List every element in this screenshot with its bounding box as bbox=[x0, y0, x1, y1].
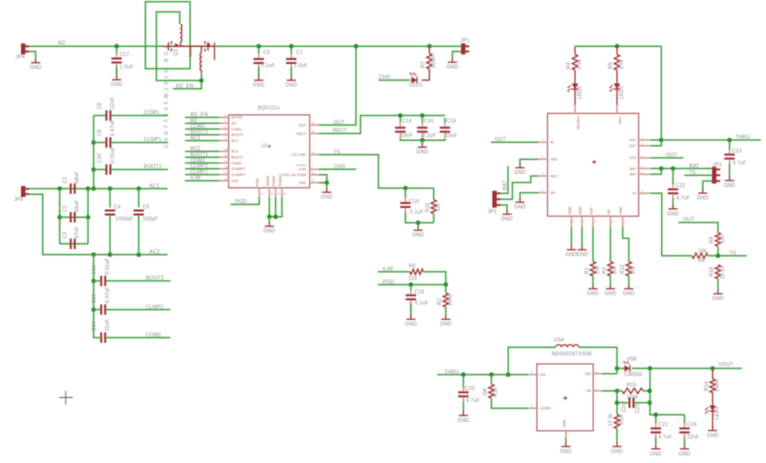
svg-text:PGD: PGD bbox=[383, 279, 395, 285]
junction node bus at C12 bbox=[91, 307, 96, 312]
pin ILIM of U2 bottom bbox=[592, 216, 594, 227]
wire C2 row bbox=[60, 216, 88, 218]
pin ISET of U2 bbox=[539, 175, 548, 177]
svg-text:22nF: 22nF bbox=[687, 434, 699, 440]
wire Q1 coil B to AD_EN junction bbox=[200, 74, 202, 81]
wire net AC1 stub at U1 bbox=[185, 140, 220, 142]
svg-text:BAT: BAT bbox=[689, 163, 699, 169]
resistor R8 bbox=[692, 248, 708, 264]
svg-text:LED3: LED3 bbox=[619, 86, 625, 99]
wire U1 PGND2 down bbox=[269, 197, 282, 217]
svg-text:GND: GND bbox=[458, 418, 470, 424]
svg-text:10k: 10k bbox=[698, 248, 707, 254]
svg-text:JP4: JP4 bbox=[16, 54, 25, 60]
svg-text:OUT: OUT bbox=[495, 137, 506, 143]
junction node THRU at C20 bbox=[461, 372, 466, 377]
capacitor C13 bbox=[92, 319, 111, 343]
pin AC1 of U1 bbox=[220, 140, 229, 142]
svg-text:CLMP2: CLMP2 bbox=[146, 304, 164, 310]
junction node AD at OUT drop bbox=[354, 44, 359, 49]
svg-text:AD: AD bbox=[58, 40, 66, 46]
pin AGND of U1 bottom bbox=[268, 188, 270, 197]
svg-text:CHG: CHG bbox=[298, 168, 306, 172]
junction node rail at R5 bbox=[615, 44, 620, 49]
wire JP2 pin1 net BAT bbox=[501, 166, 509, 193]
svg-text:TMR: TMR bbox=[619, 206, 623, 214]
svg-text:C15: C15 bbox=[447, 118, 457, 124]
pin BAT of U2 bbox=[639, 168, 651, 170]
svg-text:OUT: OUT bbox=[683, 217, 694, 223]
wire U2 GND1 down bbox=[570, 227, 572, 246]
junction node U1 gnd tie B bbox=[273, 215, 278, 220]
capacitor C24 bbox=[679, 415, 699, 446]
svg-text:1000pF: 1000pF bbox=[115, 216, 133, 222]
wire net AD top rail bbox=[26, 45, 462, 47]
LED LED3 bbox=[609, 84, 625, 100]
ground below C19 bbox=[412, 226, 424, 239]
wire net AC1 row bbox=[29, 188, 167, 190]
svg-text:GND: GND bbox=[697, 196, 709, 202]
ground below R2 bbox=[440, 315, 452, 328]
resistor R1 bbox=[584, 262, 600, 276]
svg-text:GND: GND bbox=[405, 322, 417, 328]
wire U1 PGND down bbox=[275, 197, 277, 217]
wire loop outer rectangle around Q1 bbox=[145, 2, 190, 69]
connector JP3 bbox=[712, 162, 722, 183]
svg-text:GND: GND bbox=[707, 433, 719, 439]
wire net PGD stub at U1 bbox=[231, 197, 260, 205]
svg-text:BQ5101x: BQ5101x bbox=[258, 105, 281, 111]
svg-text:GND: GND bbox=[416, 150, 428, 156]
svg-text:TS: TS bbox=[333, 149, 340, 155]
wire net CHG to LED1 bbox=[378, 79, 410, 81]
wire C1 bank right bus bbox=[87, 189, 89, 244]
ground at U2 VSS bbox=[514, 164, 526, 177]
pin BAT2 of U2 bbox=[639, 173, 651, 175]
svg-text:GND: GND bbox=[501, 217, 513, 223]
ground below C16 bbox=[416, 143, 428, 156]
junction node BAT at C22 bbox=[671, 166, 676, 171]
svg-text:PGD: PGD bbox=[256, 178, 260, 186]
svg-text:RECT: RECT bbox=[297, 132, 307, 136]
svg-text:10k: 10k bbox=[631, 266, 637, 275]
ground below R1 bbox=[587, 285, 599, 298]
junction node C2 left bbox=[57, 215, 62, 220]
wire U2 VSS to ground bbox=[520, 159, 539, 164]
wire net AD stub at U1 bbox=[185, 122, 220, 124]
svg-text:U1: U1 bbox=[262, 144, 269, 150]
svg-text:GND: GND bbox=[321, 195, 333, 201]
pin PGND2 of U1 bottom bbox=[281, 188, 283, 197]
svg-text:JP5: JP5 bbox=[14, 197, 23, 203]
transistor Q1 body diode coil B bbox=[200, 53, 201, 74]
junction node U1 gnd tie A bbox=[267, 215, 272, 220]
svg-text:BAT: BAT bbox=[502, 180, 508, 190]
pin COM1 of U1 bbox=[220, 128, 229, 130]
junction node THRU at C23 bbox=[727, 138, 732, 143]
wire diode anode bbox=[617, 367, 624, 369]
wire net BOOT1 stub bbox=[111, 169, 168, 171]
pin AC2 of U1 bbox=[220, 150, 229, 152]
svg-text:AD: AD bbox=[231, 122, 236, 126]
resistor R4 bbox=[566, 55, 583, 70]
svg-text:BOOT2: BOOT2 bbox=[146, 276, 164, 282]
capacitor C7 bbox=[286, 48, 308, 76]
wire L left leg bbox=[508, 347, 556, 374]
svg-text:GND: GND bbox=[263, 229, 275, 235]
svg-text:TS-CTRL: TS-CTRL bbox=[291, 153, 306, 157]
pin TS-CTRL of U1 bbox=[310, 154, 319, 156]
svg-text:0.1uF: 0.1uF bbox=[261, 63, 275, 69]
wire C4 bottom bbox=[109, 216, 111, 255]
wire U2 ISET to JP2 bbox=[500, 176, 539, 199]
wire L right leg bbox=[579, 347, 617, 374]
pin IN of U2 bbox=[539, 141, 548, 143]
junction node PGD at R2 bbox=[444, 282, 449, 287]
svg-text:1.0uF: 1.0uF bbox=[294, 63, 308, 69]
svg-text:22nF: 22nF bbox=[105, 319, 111, 331]
wire C19 R11 bottom rail bbox=[405, 220, 433, 223]
wire net CLMP1 stub at U1 bbox=[185, 174, 220, 176]
wire net CLMP2 stub bbox=[106, 309, 170, 311]
connector JP5 bbox=[14, 186, 29, 203]
pin GND1 of U2 bottom bbox=[570, 216, 572, 227]
svg-text:AC1: AC1 bbox=[231, 139, 238, 143]
svg-text:Q1: Q1 bbox=[174, 49, 180, 56]
svg-text:BOOT1: BOOT1 bbox=[231, 133, 243, 137]
wire net THRU bbox=[661, 139, 761, 141]
svg-text:10k: 10k bbox=[595, 266, 601, 275]
svg-text:1.5k: 1.5k bbox=[619, 59, 625, 70]
wire C25 left link bbox=[617, 402, 629, 404]
svg-text:FB: FB bbox=[586, 389, 591, 393]
ground below C24 bbox=[679, 445, 691, 458]
wire U2 TMR down bbox=[623, 227, 629, 262]
svg-text:CHG: CHG bbox=[379, 75, 391, 81]
junction node RECT at C14 bbox=[398, 113, 403, 118]
svg-text:GND: GND bbox=[679, 451, 691, 457]
svg-text:ILIM: ILIM bbox=[590, 208, 594, 215]
svg-text:R13: R13 bbox=[493, 387, 499, 397]
svg-text:CLMP1: CLMP1 bbox=[144, 137, 162, 143]
svg-text:CLMP1: CLMP1 bbox=[190, 169, 208, 175]
svg-text:AC2: AC2 bbox=[149, 249, 159, 255]
svg-text:68nF: 68nF bbox=[74, 171, 80, 183]
capacitor C22 bbox=[668, 171, 690, 206]
wire U2 TS to divider bbox=[651, 193, 693, 256]
wire SW to diode node bbox=[602, 373, 617, 375]
capacitor C2 bbox=[62, 200, 80, 223]
pin OUT2 of U2 bbox=[639, 145, 651, 147]
junction node C25 right bbox=[647, 400, 652, 405]
svg-text:ILIM: ILIM bbox=[190, 176, 201, 182]
pin AD-EN of U1 bbox=[220, 116, 229, 118]
svg-text:R3: R3 bbox=[602, 267, 608, 274]
svg-text:10: 10 bbox=[225, 147, 228, 151]
wire net BOOT2 row bbox=[94, 280, 101, 282]
svg-text:C22: C22 bbox=[676, 183, 686, 189]
svg-text:GND: GND bbox=[560, 449, 572, 455]
svg-text:0.47uF: 0.47uF bbox=[110, 119, 116, 136]
svg-text:0.47uF: 0.47uF bbox=[105, 287, 111, 304]
svg-text:ILIM: ILIM bbox=[383, 267, 394, 273]
svg-text:C4: C4 bbox=[114, 204, 121, 210]
capacitor C11 bbox=[92, 258, 111, 286]
pin COM2 of U1 bbox=[220, 162, 229, 164]
svg-text:TS: TS bbox=[730, 251, 737, 257]
LED LED1 bbox=[409, 73, 422, 89]
wire net CLMP2 stub at U1 bbox=[185, 168, 220, 170]
pin ILIM of U1 bbox=[220, 180, 229, 182]
wire net AD_EN stub bbox=[173, 83, 201, 89]
pin PGOOD of U2 bbox=[574, 105, 576, 113]
U2 origin marker bbox=[592, 160, 596, 164]
ground below C18 bbox=[405, 315, 417, 328]
svg-text:CHG: CHG bbox=[334, 164, 346, 170]
junction node bus at C10 bbox=[91, 167, 96, 172]
junction node bus at C9 bbox=[91, 140, 96, 145]
junction node at C21 bbox=[654, 412, 659, 417]
ground below C23 bbox=[724, 176, 736, 189]
svg-text:GND: GND bbox=[447, 65, 459, 71]
pin SHDN of U4 bbox=[529, 407, 537, 409]
svg-text:C11: C11 bbox=[92, 265, 98, 274]
wire rail to OUT drop bbox=[660, 46, 662, 140]
svg-text:14: 14 bbox=[312, 151, 315, 155]
svg-text:THRU: THRU bbox=[736, 135, 751, 141]
svg-text:LED4: LED4 bbox=[715, 406, 721, 419]
svg-text:EN: EN bbox=[550, 191, 555, 195]
svg-text:VIN: VIN bbox=[539, 373, 545, 377]
wire JP3 pin3 to ground bbox=[703, 180, 712, 182]
svg-text:10uF: 10uF bbox=[445, 133, 457, 139]
ground below U2 pin GND2 bbox=[577, 246, 586, 250]
ground below C7 bbox=[285, 76, 297, 89]
svg-text:R11: R11 bbox=[425, 203, 431, 212]
svg-text:OUT: OUT bbox=[333, 120, 344, 126]
ground below R3 bbox=[605, 285, 617, 298]
svg-text:GND: GND bbox=[514, 170, 526, 176]
svg-text:1.5k: 1.5k bbox=[577, 59, 583, 70]
svg-text:13: 13 bbox=[225, 165, 228, 169]
wire U1 TS-CTRL to divider bbox=[319, 155, 434, 189]
svg-text:R9: R9 bbox=[709, 237, 715, 244]
svg-text:100pF: 100pF bbox=[143, 216, 158, 222]
wire R8 to TS node bbox=[708, 255, 747, 257]
svg-text:16: 16 bbox=[312, 121, 315, 125]
svg-text:THRU: THRU bbox=[444, 369, 459, 375]
svg-text:C12: C12 bbox=[92, 293, 98, 303]
svg-text:10: 10 bbox=[312, 171, 315, 175]
wire VOUT feedback leg bbox=[650, 368, 685, 414]
svg-text:R5: R5 bbox=[608, 62, 614, 69]
svg-text:0.01uF: 0.01uF bbox=[110, 146, 116, 163]
svg-text:4.7uF: 4.7uF bbox=[466, 398, 480, 404]
pin GND of U4 bbox=[565, 431, 567, 440]
svg-text:VOUT: VOUT bbox=[718, 362, 733, 368]
svg-text:GND: GND bbox=[30, 65, 42, 71]
junction node OUT tie bbox=[659, 138, 664, 143]
connector JP4 bbox=[16, 43, 30, 60]
pin FB of U4 bbox=[593, 390, 602, 392]
pin BOOT2 of U1 bbox=[220, 156, 229, 158]
transistor Q1 drain link bbox=[186, 46, 215, 57]
transistor Q1 body diode coil A bbox=[181, 24, 182, 44]
svg-text:22nF: 22nF bbox=[621, 400, 627, 412]
svg-text:C2: C2 bbox=[62, 205, 68, 212]
svg-text:AD-EN: AD-EN bbox=[231, 116, 242, 120]
pin CLAMP2 of U1 bbox=[220, 168, 229, 170]
wire C17 to ground bbox=[116, 66, 118, 77]
pin CHG of U2 bbox=[616, 105, 618, 113]
resistor R10 bbox=[709, 265, 726, 279]
svg-text:ILIM: ILIM bbox=[231, 179, 238, 183]
transistor Q1 FET B gate arrow bbox=[206, 43, 210, 47]
wire U2 BAT pins tie bbox=[651, 169, 662, 175]
junction node AD at C7 bbox=[289, 44, 294, 49]
ground below U1 bbox=[263, 222, 275, 235]
svg-text:R15: R15 bbox=[627, 382, 637, 388]
pin name CHG overline bbox=[297, 164, 307, 166]
ground below R10 bbox=[712, 290, 724, 303]
svg-text:LED1: LED1 bbox=[409, 83, 422, 89]
capacitor C16 bbox=[417, 118, 436, 140]
svg-text:14: 14 bbox=[225, 171, 228, 175]
svg-text:C6: C6 bbox=[263, 50, 270, 56]
svg-text:EN: EN bbox=[607, 209, 611, 214]
wire U1 AGND down bbox=[268, 197, 270, 217]
svg-text:R7: R7 bbox=[421, 61, 427, 68]
wire R15 to VOUT leg bbox=[643, 390, 650, 392]
svg-text:4.7uF: 4.7uF bbox=[733, 161, 747, 167]
wire C4 top bbox=[109, 189, 111, 208]
capacitor C14 bbox=[395, 118, 413, 140]
capacitor C18 bbox=[406, 287, 429, 316]
ground at EN pins bbox=[321, 188, 333, 201]
svg-text:C17: C17 bbox=[120, 52, 130, 58]
drawing origin cross bbox=[59, 391, 73, 405]
pin EN1 of U2 bottom bbox=[609, 216, 611, 227]
svg-text:12: 12 bbox=[225, 159, 228, 163]
svg-text:4.7uF: 4.7uF bbox=[658, 434, 672, 440]
svg-text:GND: GND bbox=[650, 451, 662, 457]
resistor R3 bbox=[602, 262, 618, 276]
svg-text:EN2: EN2 bbox=[299, 181, 306, 185]
capacitor C25 bbox=[621, 398, 641, 414]
svg-text:110: 110 bbox=[408, 276, 417, 282]
wire net AD_EN stub at U1 bbox=[185, 116, 220, 118]
svg-text:C14: C14 bbox=[402, 118, 412, 124]
svg-text:10nF: 10nF bbox=[401, 133, 413, 139]
ground below R12 bbox=[623, 285, 635, 298]
wire net COM1 stub bbox=[111, 115, 168, 117]
wire net OUT stub at U2 bbox=[651, 157, 684, 159]
junction node THRU at R13 bbox=[489, 372, 494, 377]
wire R4 R5 top rail bbox=[575, 45, 661, 47]
svg-text:R2: R2 bbox=[437, 298, 443, 305]
wire net CLMP1 row bbox=[94, 142, 106, 144]
wire JP5 pin2 to AC2 bbox=[29, 194, 93, 254]
svg-text:BAT: BAT bbox=[630, 167, 637, 171]
svg-text:13.3k: 13.3k bbox=[608, 413, 614, 427]
junction node AC2 at bus bbox=[91, 252, 96, 257]
svg-text:JP3: JP3 bbox=[712, 162, 721, 168]
svg-text:C16: C16 bbox=[424, 118, 434, 124]
svg-text:0.1uF: 0.1uF bbox=[415, 301, 429, 307]
svg-text:20: 20 bbox=[283, 192, 286, 196]
svg-text:C8: C8 bbox=[97, 102, 103, 109]
capacitor C1 bbox=[62, 171, 80, 194]
ground below C17 bbox=[111, 76, 123, 89]
wire U2 OUT pins tie bbox=[651, 140, 662, 146]
wire net THRU to U4 bbox=[437, 374, 529, 376]
svg-text:R6: R6 bbox=[409, 264, 416, 270]
connector JP2 bbox=[488, 191, 501, 215]
ground below C6 bbox=[253, 76, 265, 89]
capacitor C10 bbox=[97, 146, 116, 174]
wire C25 right link bbox=[635, 402, 650, 404]
resistor R13 bbox=[483, 384, 500, 398]
svg-text:100k: 100k bbox=[448, 294, 454, 306]
svg-text:CLAMP1: CLAMP1 bbox=[231, 173, 245, 177]
wire U1 RECT to cap rail bbox=[319, 116, 445, 134]
svg-text:AD_EN: AD_EN bbox=[176, 84, 194, 90]
junction node AD at C17 bbox=[114, 44, 119, 49]
wire C7 to ground bbox=[290, 67, 292, 78]
svg-text:COM1: COM1 bbox=[144, 110, 159, 116]
junction node BAT tie bbox=[659, 166, 664, 171]
svg-text:GND: GND bbox=[667, 211, 679, 217]
svg-text:R14: R14 bbox=[704, 381, 710, 391]
junction node AD_EN bbox=[199, 78, 204, 83]
capacitor C9 bbox=[97, 119, 116, 147]
U1 origin marker bbox=[269, 145, 271, 148]
junction node C25 left bbox=[615, 400, 620, 405]
svg-text:C3: C3 bbox=[62, 232, 68, 239]
capacitor C21 bbox=[651, 417, 672, 446]
capacitor C8 bbox=[97, 97, 116, 121]
junction node AC2 at C5 bbox=[136, 252, 141, 257]
junction node TS divider bbox=[716, 254, 721, 259]
pin AD of U1 bbox=[220, 122, 229, 124]
wire net CLMP1 stub bbox=[111, 142, 168, 144]
ground at U2 EN bbox=[514, 198, 526, 211]
wire net COM1 stub at U1 bbox=[185, 128, 220, 130]
junction node AC1 at bus bbox=[91, 186, 96, 191]
svg-text:GND: GND bbox=[440, 322, 452, 328]
svg-text:15: 15 bbox=[225, 177, 228, 181]
wire FB node down bbox=[616, 391, 618, 415]
op-amp U1 BQ5101x outline bbox=[229, 115, 310, 188]
wire stack bus COM1-BOOT1 bbox=[93, 116, 95, 189]
wire net BOOT1 stub at U1 bbox=[185, 134, 220, 136]
svg-text:C23: C23 bbox=[732, 148, 742, 154]
junction node AC1 at C5 bbox=[136, 186, 141, 191]
svg-text:R8: R8 bbox=[698, 258, 705, 264]
svg-text:TS: TS bbox=[689, 170, 696, 176]
wire net COM2 stub at U1 bbox=[185, 162, 220, 164]
resistor R15 bbox=[622, 382, 643, 400]
svg-text:R4: R4 bbox=[566, 62, 572, 69]
pin RECT of U1 bbox=[310, 133, 319, 135]
transistor Q1 FET A gate arrow bbox=[175, 43, 179, 47]
ground below R16 bbox=[611, 442, 623, 455]
wire U2 EN1 down bbox=[609, 227, 611, 262]
svg-text:GND: GND bbox=[111, 82, 123, 88]
svg-text:0.1uF: 0.1uF bbox=[423, 133, 437, 139]
wire C6 to ground bbox=[258, 67, 260, 78]
diode U5B bbox=[623, 361, 630, 372]
